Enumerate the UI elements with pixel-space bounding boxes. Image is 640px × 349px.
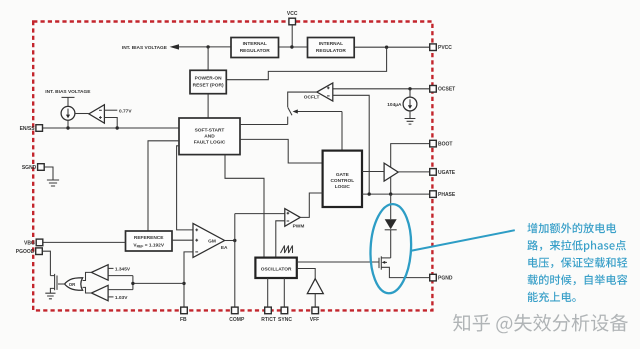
svg-text:BOOT: BOOT [438,142,452,148]
svg-text:REGULATOR: REGULATOR [240,48,270,54]
wire reference to GM [172,239,193,241]
comparator PGOOD lower 1.03V [83,285,133,301]
transistor Q1 discharge MOSFET [379,256,430,277]
wire bias rail to POR [207,47,209,70]
wire between regulators [279,46,308,48]
svg-text:INT. BIAS VOLTAGE: INT. BIAS VOLTAGE [122,45,168,51]
svg-text:PVCC: PVCC [438,45,452,51]
svg-text:EA: EA [221,245,228,251]
reference block REFERENCE VREF = 1.192V [126,231,173,251]
pin PGOOD open-drain MOSFET [42,251,57,299]
callout line [412,230,515,250]
comparator EN (0.77V) [75,105,132,130]
wire VBG to reference [43,241,126,243]
node VCC junction [290,45,293,48]
pin BOOT [430,140,437,147]
wire VCC drop [291,25,293,47]
svg-text:VBG: VBG [24,240,35,246]
wire driver to UGATE [398,171,430,173]
wire PVCC line [354,46,430,48]
wire BOOT to driver [391,144,430,168]
svg-text:AND: AND [204,133,215,139]
watermark 知乎 @失效分析设备 [453,314,628,334]
pin PGOOD [36,248,43,255]
wire POR feed from PVCC [226,47,386,79]
comparator PGOOD upper 1.345V [83,265,133,281]
svg-text:FB: FB [180,317,187,323]
svg-text:EN/SS: EN/SS [20,126,36,132]
svg-text:REGULATOR: REGULATOR [316,48,346,54]
wire EN/SS line [43,127,180,129]
wire OCSET line [333,88,430,90]
wire PHASE line [362,193,430,195]
svg-text:RESET (POR): RESET (POR) [193,83,224,89]
wire SYNC [283,278,285,307]
svg-text:PGND: PGND [438,276,453,282]
switch OCFLT fault switch [288,107,342,150]
wire SS to gate control logic [240,139,323,163]
current source I1 soft-start (INT. BIAS) [45,89,91,130]
svg-text:PGOOD: PGOOD [16,249,35,255]
wire oscillator to VFF buffer [297,269,315,279]
svg-text:INTERNAL: INTERNAL [319,41,343,47]
wire POR to soft-start [207,94,209,118]
pin VBG [36,239,43,246]
annotation text (cyan) [527,223,627,302]
svg-text:VFF: VFF [310,317,319,323]
node comparator mid [131,282,134,285]
svg-text:VCC: VCC [287,11,298,17]
wire COMP to PWM [235,213,285,215]
svg-text:0.77V: 0.77V [119,108,132,114]
svg-text:RT/CT: RT/CT [261,317,276,323]
pin COMP [232,307,239,314]
svg-text:PWM: PWM [293,224,305,230]
svg-text:CONTROL: CONTROL [330,178,354,184]
wire SS to oscillator [225,155,264,258]
pin SGND [38,164,45,171]
svg-text:OCSET: OCSET [438,87,455,93]
wire INT. BIAS VOLTAGE rail [179,46,232,48]
svg-text:LOGIC: LOGIC [335,184,351,190]
svg-text:1.345V: 1.345V [115,267,131,273]
op-amp GM error amplifier EA [193,223,228,257]
pin OCSET [430,86,437,93]
svg-text:FAULT LOGIC: FAULT LOGIC [194,139,226,145]
pin PHASE [430,191,437,198]
svg-text:COMP: COMP [229,317,245,323]
block SOFT-START AND FAULT LOGIC [179,118,240,155]
svg-text:POWER-ON: POWER-ON [195,76,222,82]
svg-text:PHASE: PHASE [438,192,456,198]
wire SS to OCFLT switch [240,124,288,126]
amplifier gate driver [384,163,398,181]
wire SS to reference [148,141,179,231]
gate OR [58,278,83,291]
svg-text:GATE: GATE [336,172,350,178]
IC boundary dashed border [33,22,432,311]
pin VFF [312,307,319,314]
buffer VFF amplifier [307,279,323,307]
pin EN/SS [36,125,43,132]
regulator U2 INTERNAL REGULATOR [308,38,355,58]
wire SS to GM top input [177,146,193,230]
svg-text:104µA: 104µA [387,102,402,108]
sawtooth symbol [281,246,293,254]
svg-text:SOFT-START: SOFT-START [195,127,225,133]
block POWER-ON RESET (POR) [190,70,226,93]
node OCSET current source tap [408,87,411,90]
pin VCC [289,18,296,25]
arrowhead INT. BIAS VOLTAGE [170,44,179,49]
diode D1 discharge diode [385,219,397,258]
pin FB [181,307,188,314]
comparator OCFLT [288,83,370,194]
svg-text:OR: OR [69,282,76,287]
pin PGND [430,274,437,281]
wire RT/CT [267,278,269,307]
svg-text:REFERENCE: REFERENCE [134,235,164,241]
node FB comparator tap [182,282,185,285]
svg-text:SYNC: SYNC [278,317,292,323]
wire comparator pair to FB [133,276,184,290]
pin PVCC [430,44,437,51]
node POR tap on bias rail [206,45,209,48]
svg-text:OCFLT: OCFLT [304,95,320,101]
oscillator block OSCILLATOR [255,258,296,278]
node PHASE/driver junction [389,192,392,195]
ellipse highlight (blue) [368,203,413,294]
current source I2 104uA [387,89,417,124]
svg-text:SGND: SGND [22,165,37,171]
svg-text:GM: GM [208,238,216,244]
block GATE CONTROL LOGIC [323,151,362,207]
wire PHASE to diode [390,194,392,219]
wire GM output to COMP [225,240,235,242]
node PHASE/OCFLT junction [368,192,371,195]
node PVCC/POR feed [385,46,388,49]
pin SYNC [281,307,288,314]
comparator PWM [276,193,323,258]
wire driver return to PHASE [390,177,392,194]
regulator U1 INTERNAL REGULATOR [231,38,279,58]
wire GCL to driver input [362,171,384,173]
pin RT/CT [265,307,272,314]
svg-text:OSCILLATOR: OSCILLATOR [261,266,292,272]
svg-text:1.03V: 1.03V [115,295,128,301]
wire FB net [184,252,193,307]
pin SGND ground [44,167,59,186]
pin UGATE [430,169,437,176]
svg-text:UGATE: UGATE [438,170,456,176]
svg-text:INTERNAL: INTERNAL [243,41,267,47]
svg-text:INT. BIAS VOLTAGE: INT. BIAS VOLTAGE [45,89,91,95]
wire oscillator to discharge FET gate [297,261,379,263]
